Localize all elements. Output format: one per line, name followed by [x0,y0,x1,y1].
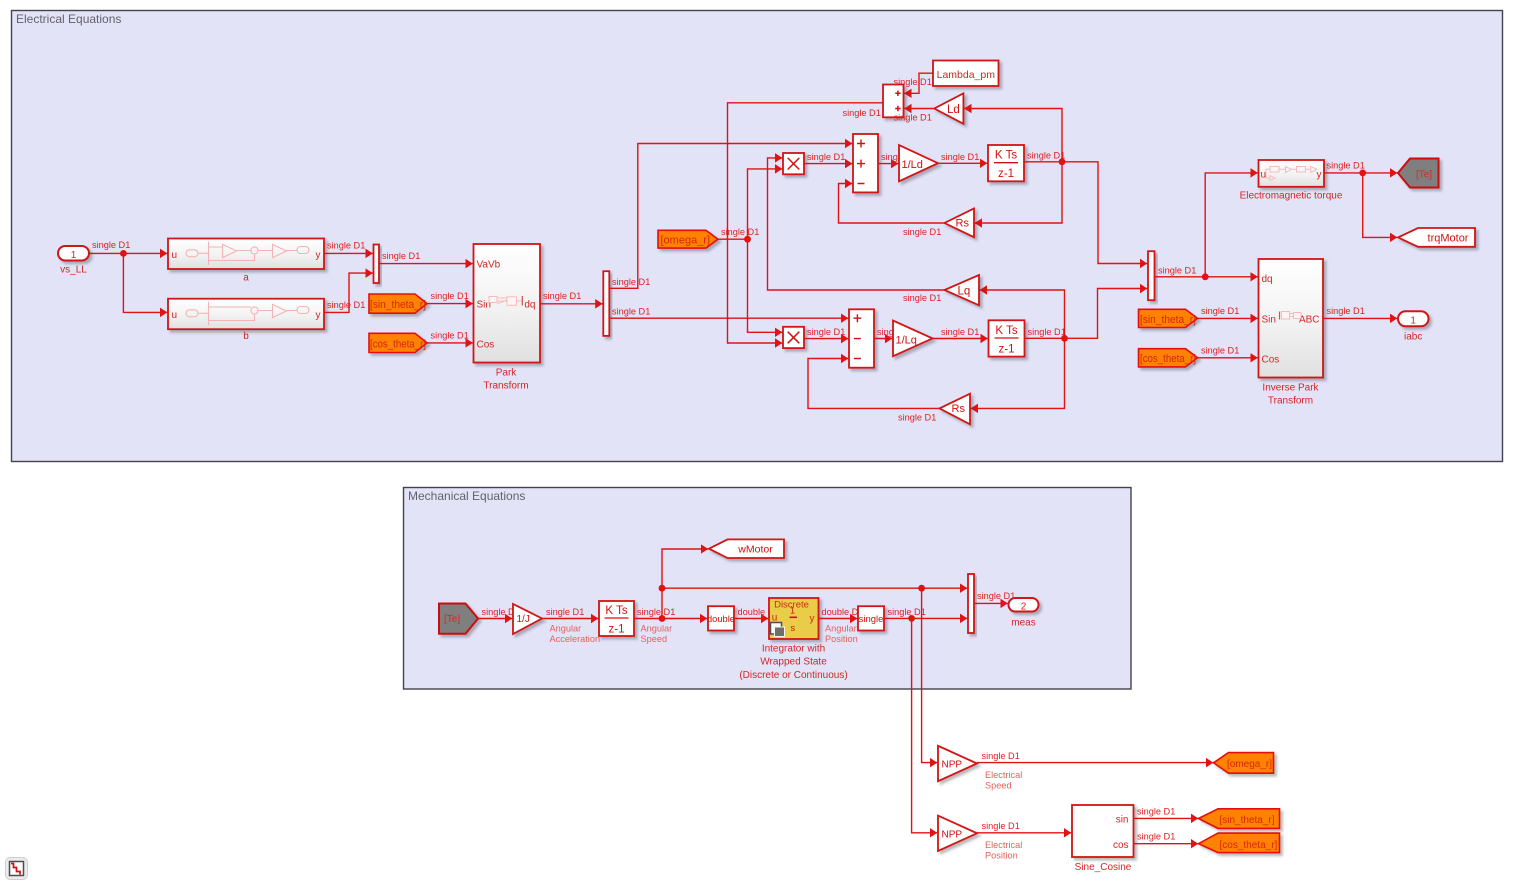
junction iq [1061,335,1068,342]
Lambda_pm constant [933,61,999,87]
svg-text:Speed: Speed [641,634,668,644]
svg-text:(Discrete or Continuous): (Discrete or Continuous) [739,670,847,681]
wire 1/Lq to KTs2 [933,327,988,339]
svg-text:single D1: single D1 [977,591,1015,601]
Goto tag sin_theta_r [1199,809,1280,829]
gain NPP2 electrical position [938,816,977,851]
svg-text:single D1: single D1 [612,306,650,316]
junction id [1059,158,1066,165]
wire omega_r with junction [718,227,759,239]
svg-text:double: double [707,614,735,625]
mux1 [374,245,380,284]
svg-text:single D1: single D1 [807,152,845,162]
svg-text:single D1: single D1 [888,607,926,617]
outport 2 meas [1009,598,1039,628]
block b internal icon [186,302,309,326]
wire product1 to sum2 [804,152,852,164]
svg-text:Sine_Cosine: Sine_Cosine [1075,862,1132,873]
junction wMotor lower [659,615,666,622]
svg-text:Cos: Cos [1262,354,1280,365]
Sine_Cosine block [1072,805,1134,873]
wire KTs1 out with junction (id) [1024,150,1147,263]
svg-text:u: u [172,250,178,261]
svg-text:1/Lq: 1/Lq [896,334,917,346]
wire double to integrator [734,607,779,619]
From tag Te (gray, mech) [439,604,478,634]
mux3 [968,574,974,633]
Inverse Park Transform block [1259,259,1324,407]
svg-text:meas: meas [1011,617,1035,628]
wire sin to sin_theta_r goto [1134,806,1199,818]
Ld gain (left pointing) [934,93,963,124]
wire InvPark ABC to iabc outport [1323,306,1397,319]
wire NPP1 to omega_r goto, signal Electrical Speed [977,751,1213,791]
InvPark internal icon [1280,312,1302,320]
svg-text:s: s [790,623,795,634]
svg-text:1: 1 [1410,316,1416,327]
sum3 q-axis [849,309,874,367]
svg-text:cos: cos [1113,840,1129,851]
svg-text:Angular: Angular [550,623,582,633]
Goto tag cos_theta_r [1199,833,1280,853]
wire product2 to sum3 [804,327,848,339]
svg-text:Inverse Park: Inverse Park [1262,382,1319,393]
wire cos_theta_r to InvPark Cos [1198,345,1258,358]
From tag omega_r (electrical) [658,230,718,248]
junction dq [1202,273,1209,280]
wire Rs1 to sum2 minus [839,184,945,237]
wire single to mux3 (bottom input) [884,607,967,619]
svg-text:Lq: Lq [958,285,971,297]
From tag cos_theta_r (park) [369,333,427,352]
svg-text:dq: dq [1262,274,1273,285]
KTs1 discrete integrator d-axis [988,145,1024,181]
wire dq up to EM torque [1205,173,1258,277]
sum2 d-axis [853,134,878,192]
svg-text:VaVb: VaVb [477,260,501,271]
wire sin_theta_r to InvPark Sin [1198,306,1258,319]
svg-text:ABC: ABC [1299,314,1320,325]
1/Ld gain [899,145,938,181]
wire NPP2 to Sine_Cosine, signal Electrical Position [977,821,1071,861]
wire omega up to product1 [748,169,783,239]
wire KTs2 out with junction (iq) [1025,289,1148,339]
wire Park dq to demux [540,291,603,304]
svg-text:single D1: single D1 [721,227,759,237]
svg-text:Transform: Transform [1268,396,1313,407]
block a internal icon [186,242,309,266]
Rs2 gain [940,394,971,425]
Lq gain [945,275,980,305]
svg-text:b: b [243,331,249,342]
svg-text:sin: sin [1116,815,1129,826]
junction vs_LL [120,250,127,257]
From tag sin_theta_r (park) [369,294,427,313]
wire id to Ld (feedback up) [964,109,1062,162]
svg-text:single D1: single D1 [941,152,979,162]
wire omega to mux3 (top input) [662,587,967,589]
svg-text:[cos_theta_r]: [cos_theta_r] [1140,353,1196,365]
svg-text:Position: Position [825,634,858,644]
svg-text:[cos_theta_r]: [cos_theta_r] [1220,840,1278,851]
svg-text:y: y [810,613,815,624]
1/Lq gain [893,321,933,357]
svg-text:Sin: Sin [1262,314,1276,325]
wire junction up to wMotor tag [662,549,708,619]
svg-text:Rs: Rs [956,218,970,230]
svg-text:[omega_r]: [omega_r] [1227,759,1272,770]
svg-text:NPP: NPP [942,829,963,840]
svg-text:2: 2 [1021,601,1027,612]
svg-text:vs_LL: vs_LL [60,265,87,276]
outport 1 iabc [1398,311,1429,342]
wire Te to 1/J [478,607,520,619]
data conversion single [858,606,884,630]
junction omega [744,236,751,243]
svg-text:single D1: single D1 [982,751,1020,761]
junction Te [1359,170,1366,177]
wire Lambda_pm to sum1 [894,73,934,93]
svg-text:Park: Park [496,367,518,378]
svg-text:K Ts: K Ts [605,605,627,617]
svg-text:single D1: single D1 [612,277,650,287]
svg-text:z-1: z-1 [609,623,625,635]
svg-text:Position: Position [985,851,1018,861]
svg-text:1: 1 [71,250,77,261]
svg-text:[sin_theta_r]: [sin_theta_r] [1140,314,1196,326]
demux [603,271,609,336]
junction omega mech [659,585,666,592]
Electromagnetic torque block [1240,160,1343,201]
subsystem block b [168,299,324,342]
svg-text:z-1: z-1 [999,343,1015,355]
wire 1/J to KTs3, signal Angular Acceleration [542,607,600,644]
svg-text:wMotor: wMotor [737,544,773,556]
gain NPP1 electrical speed [938,746,977,781]
svg-text:single D1: single D1 [543,291,581,301]
svg-text:[sin_theta_r]: [sin_theta_r] [370,299,426,311]
wire sin_theta_r to Park Sin [427,291,473,304]
svg-text:1/J: 1/J [517,614,530,625]
svg-text:Electromagnetic torque: Electromagnetic torque [1240,190,1343,201]
KTs3 discrete integrator speed [599,601,634,636]
wire sum3 to 1/Lq [874,338,892,340]
svg-text:single D1: single D1 [1137,832,1175,842]
wire 1/Ld to KTs1 [938,152,987,164]
Mechanical Equations subsystem area [404,488,1132,690]
svg-text:single D1: single D1 [637,607,675,617]
svg-text:Mechanical Equations: Mechanical Equations [408,489,525,503]
wire inport1 branch to block b [123,253,167,312]
svg-text:Speed: Speed [985,780,1012,790]
svg-text:Transform: Transform [483,381,528,392]
wire demux out2 to sum q-axis (Vq) [609,306,848,318]
svg-text:[Te]: [Te] [444,614,460,625]
From tag sin_theta_r (invpark) [1139,309,1198,327]
inport 1 vs_LL [58,246,89,276]
svg-text:single D1: single D1 [1327,160,1365,170]
svg-text:Lambda_pm: Lambda_pm [937,69,996,81]
wire sum1 output to product2 [728,103,884,343]
wire sum2 to 1/Ld [878,163,898,165]
svg-text:dq: dq [524,300,535,311]
wire cos_theta_r to Park Cos [427,331,473,343]
svg-text:[omega_r]: [omega_r] [661,235,711,247]
wire omega down to product2 [748,239,783,332]
Electrical Equations subsystem area [12,11,1503,462]
wire block b to mux1 [324,273,373,312]
svg-text:Electrical: Electrical [985,840,1022,850]
data conversion double [707,606,735,630]
wire mux3 to outport meas [974,591,1015,604]
wire Rs2 to sum3 minus [808,359,940,423]
svg-text:single D1: single D1 [1158,265,1196,275]
svg-text:single D1: single D1 [92,240,130,250]
svg-text:single D1: single D1 [327,300,365,310]
svg-text:single D1: single D1 [894,112,932,122]
Park Transform block [474,244,541,392]
wire Lq output to product1 [768,158,945,290]
Goto tag Te (gray) [1398,159,1439,188]
svg-text:single D1: single D1 [941,327,979,337]
wire iq down to Rs2 [971,338,1065,408]
mux2 (id iq) [1148,251,1155,300]
wire omega down to NPP1 [922,588,938,762]
svg-text:single D1: single D1 [903,227,941,237]
EM torque internal icon [1266,167,1317,181]
Goto tag omega_r [1214,753,1274,774]
wire Ld to sum1 [894,109,935,123]
From tag cos_theta_r (invpark) [1139,349,1198,367]
svg-text:Acceleration: Acceleration [550,634,601,644]
Park internal icon [485,296,522,306]
svg-text:single D1: single D1 [1327,306,1365,316]
svg-text:[cos_theta_r]: [cos_theta_r] [370,338,426,350]
svg-text:single: single [859,614,884,625]
wire EM torque to Te goto [1324,160,1397,173]
subsystem block a [168,239,324,284]
svg-text:NPP: NPP [942,759,963,770]
svg-text:single D1: single D1 [1201,345,1239,355]
svg-text:single D1: single D1 [843,108,881,118]
svg-text:y: y [1317,169,1322,180]
svg-text:Wrapped State: Wrapped State [760,657,827,668]
svg-text:Ld: Ld [947,104,960,116]
svg-text:u: u [172,310,178,321]
svg-text:single D1: single D1 [982,821,1020,831]
svg-text:Electrical: Electrical [985,770,1022,780]
svg-text:Integrator with: Integrator with [762,643,825,654]
wire KTs3 to double conv, signal Angular Speed [634,607,707,644]
wire block a to mux1 [324,241,373,254]
product1 (omega x Lq iq) [783,153,804,174]
svg-text:single D1: single D1 [1201,306,1239,316]
junction omega mech right [918,585,925,592]
svg-text:y: y [316,250,321,261]
wire iq up to Lq [980,290,1065,338]
product2 (omega x (Lambda+Ld id)) [783,327,804,348]
svg-text:y: y [316,310,321,321]
wire to trqMotor [1363,173,1398,238]
svg-text:Electrical Equations: Electrical Equations [16,12,121,26]
corner hide/show button [6,858,28,880]
svg-text:single D1: single D1 [1028,327,1066,337]
KTs2 discrete integrator q-axis [989,320,1025,356]
Integrator with Wrapped State block [739,598,847,681]
svg-text:1/Ld: 1/Ld [902,159,923,171]
svg-text:iabc: iabc [1404,331,1422,342]
Goto tag wMotor [709,539,784,558]
wire inport1 to block a [89,240,167,253]
junction theta mech [908,615,915,622]
wire cos to cos_theta_r goto [1134,832,1199,844]
svg-text:trqMotor: trqMotor [1428,233,1469,245]
svg-text:K Ts: K Ts [995,150,1017,162]
svg-text:Angular: Angular [641,623,673,633]
svg-text:single D1: single D1 [903,293,941,303]
svg-text:single D1: single D1 [898,413,936,423]
sum1 (Lambda + Ld id) inputs on right [883,85,904,118]
svg-text:a: a [243,273,249,284]
svg-text:u: u [1261,169,1267,180]
svg-text:Angular: Angular [825,623,857,633]
svg-text:single D1: single D1 [1137,806,1175,816]
svg-text:Cos: Cos [477,339,495,350]
svg-text:single D1: single D1 [431,331,469,341]
svg-text:single D1: single D1 [546,607,584,617]
wire theta down to NPP2 [912,618,938,832]
wire integrator to single conv, signal Angular Position [819,607,864,644]
wire mux2 out to InvPark dq [1155,265,1258,277]
Rs1 gain [945,209,975,238]
svg-text:K Ts: K Ts [995,325,1017,337]
svg-text:Rs: Rs [952,403,966,415]
svg-text:z-1: z-1 [998,168,1014,180]
svg-text:single D1: single D1 [1027,150,1065,160]
svg-text:[sin_theta_r]: [sin_theta_r] [1220,815,1275,826]
svg-text:1: 1 [790,606,795,616]
svg-text:single D1: single D1 [327,241,365,251]
wire demux out1 to sum d-axis (Vd) [609,144,852,289]
svg-text:single D1: single D1 [382,251,420,261]
wire id down to Rs1 [975,162,1062,223]
gain 1/J [513,604,542,634]
outport trqMotor [1398,228,1475,247]
svg-text:single D1: single D1 [431,291,469,301]
svg-text:[Te]: [Te] [1416,169,1432,180]
svg-text:single D1: single D1 [807,327,845,337]
wire mux1 to Park VaVb [379,251,473,264]
